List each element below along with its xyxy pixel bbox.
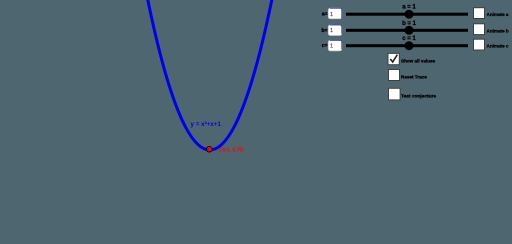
show all values checkbox (checked) (388, 53, 399, 64)
svg-text:b=: b= (322, 28, 328, 34)
svg-text:c=: c= (322, 43, 328, 49)
svg-text:1: 1 (330, 12, 333, 18)
input box b (328, 25, 342, 36)
svg-text:Reset Trace: Reset Trace (401, 74, 427, 79)
slider b track (346, 29, 468, 32)
check mark (390, 55, 397, 62)
svg-text:c = 1: c = 1 (402, 36, 416, 42)
svg-text:a=: a= (322, 12, 328, 18)
parabola curve y = x^2 + x + 1 (147, 0, 272, 150)
svg-text:1: 1 (330, 28, 333, 34)
svg-text:Test conjecture: Test conjecture (401, 93, 436, 99)
animate b checkbox (474, 24, 485, 35)
test conjecture checkbox (389, 88, 401, 100)
svg-text:y = x²+x+1: y = x²+x+1 (191, 121, 222, 128)
svg-text:a = 1: a = 1 (402, 5, 416, 11)
svg-text:Animate b: Animate b (487, 28, 509, 33)
reset trace checkbox (389, 70, 400, 81)
animate a checkbox (474, 8, 485, 19)
animate c checkbox (474, 39, 485, 50)
slider c track (346, 44, 468, 47)
svg-text:(-0.5, 0.75): (-0.5, 0.75) (219, 147, 244, 153)
slider b handle (405, 26, 414, 35)
slider a track (346, 13, 468, 16)
input box c (328, 40, 342, 51)
svg-text:Animate c: Animate c (487, 44, 509, 49)
svg-text:b = 1: b = 1 (402, 21, 417, 27)
svg-text:Show all values: Show all values (401, 58, 436, 63)
svg-text:Animate a: Animate a (487, 12, 509, 17)
svg-text:1: 1 (330, 43, 333, 49)
slider c handle (405, 41, 414, 50)
input box a (328, 8, 342, 18)
vertex point (207, 146, 213, 152)
slider a handle (405, 10, 414, 19)
